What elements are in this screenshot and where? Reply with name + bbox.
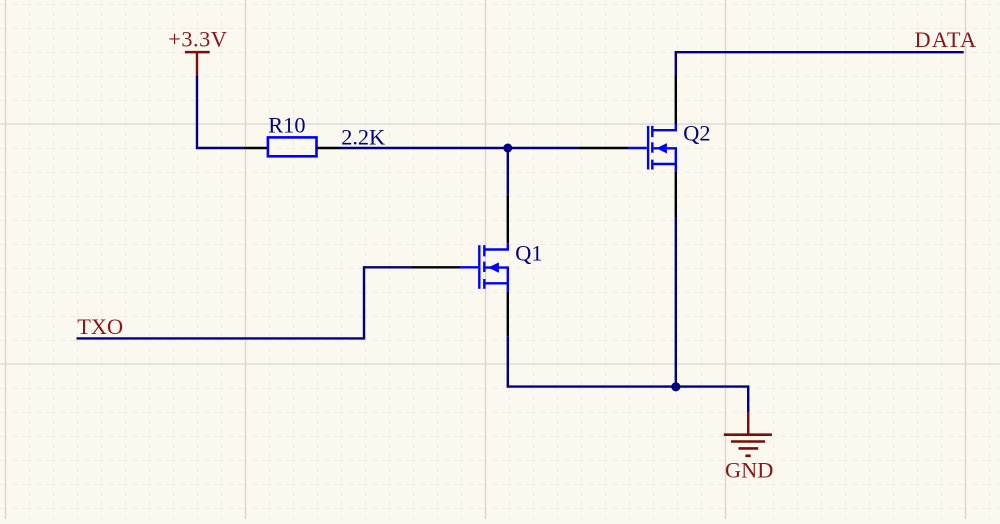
- wire from +3.3V down and right to R10: [197, 75, 245, 148]
- transistor Q1 symbol: [460, 243, 508, 291]
- transistor Q2 source pin: [675, 172, 677, 217]
- svg-text:R10: R10: [268, 113, 305, 138]
- resistor R10 body: [268, 137, 317, 156]
- wire TXO to Q1 gate: [77, 267, 412, 338]
- wire junction down to Q1 drain pin: [507, 148, 509, 195]
- svg-text:2.2K: 2.2K: [341, 124, 385, 149]
- svg-text:GND: GND: [725, 458, 773, 483]
- transistor Q1 designator: [515, 240, 542, 265]
- wire Q1 source down to ground rail: [508, 336, 676, 386]
- transistor Q2 symbol: [628, 124, 676, 172]
- wire ground rail to GND symbol: [676, 387, 748, 413]
- wire from R10 to Q2 gate: [340, 147, 580, 149]
- junction node at R10 wire / Q1 drain: [503, 144, 512, 153]
- power port +3.3V label: [168, 27, 227, 52]
- wire Q2 drain up to DATA: [676, 52, 964, 75]
- resistor R10 right pin: [317, 147, 341, 149]
- ground net label GND: [725, 458, 773, 483]
- transistor Q1 drain pin: [507, 195, 509, 244]
- transistor Q2 designator: [683, 120, 710, 145]
- svg-text:TXO: TXO: [77, 314, 123, 339]
- transistor Q2 drain pin: [675, 76, 677, 125]
- resistor value 2.2K: [341, 124, 385, 149]
- svg-text:Q2: Q2: [683, 120, 710, 145]
- resistor designator R10: [268, 113, 305, 138]
- transistor Q2 gate pin: [580, 147, 629, 149]
- svg-text:+3.3V: +3.3V: [168, 27, 227, 52]
- net label DATA: [915, 27, 978, 52]
- svg-text:Q1: Q1: [515, 240, 542, 265]
- net label TXO: [77, 314, 123, 339]
- transistor Q1 gate pin: [412, 266, 461, 268]
- junction node at ground rail: [671, 382, 680, 391]
- transistor Q1 source pin: [507, 291, 509, 336]
- wire Q2 source down to ground rail: [675, 217, 677, 387]
- svg-text:DATA: DATA: [915, 27, 978, 52]
- resistor R10 left pin: [245, 147, 268, 149]
- ground symbol GND: [724, 412, 772, 456]
- power port +3.3V symbol: [185, 52, 210, 75]
